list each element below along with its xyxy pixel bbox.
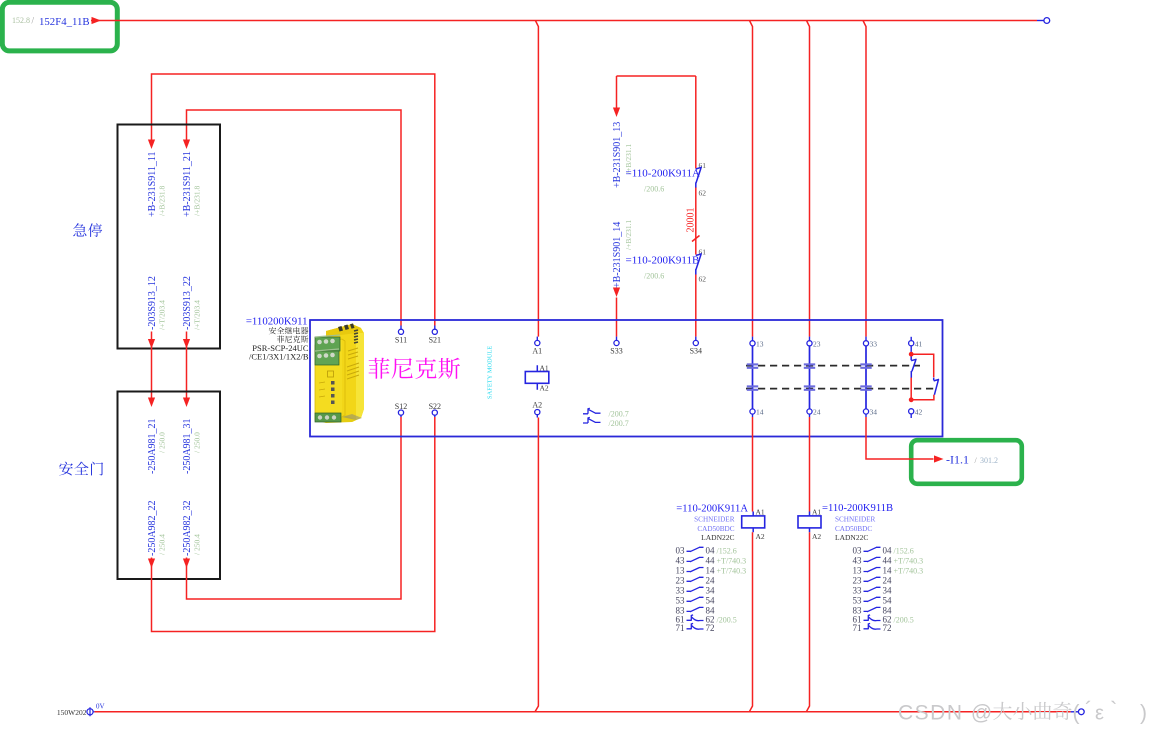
svg-text:A2: A2 <box>532 401 542 410</box>
svg-text:14: 14 <box>883 566 893 576</box>
svg-text:/200.6: /200.6 <box>644 185 664 194</box>
terminal S21 <box>434 326 436 330</box>
svg-text:62: 62 <box>699 189 707 198</box>
wire +B-231S901_13 entry <box>617 76 696 108</box>
svg-text:152.8: 152.8 <box>12 16 30 25</box>
wire -250A982_22 to S22 <box>152 417 435 632</box>
wire coil A to 0V <box>749 532 752 712</box>
svg-text:S21: S21 <box>429 336 441 345</box>
svg-text:23: 23 <box>853 575 863 585</box>
aux contact ref /200.7 a <box>583 408 601 414</box>
svg-text:=110-200K911A: =110-200K911A <box>626 168 700 180</box>
svg-text:): ) <box>1140 702 1147 725</box>
svg-text:13: 13 <box>676 566 686 576</box>
svg-text:=110-200K911B: =110-200K911B <box>626 255 700 267</box>
svg-text:54: 54 <box>883 595 893 605</box>
svg-text:+T/740.3: +T/740.3 <box>894 556 924 565</box>
mechanical linkage dashes lower <box>746 388 934 390</box>
svg-text:33: 33 <box>853 585 863 595</box>
svg-text:34: 34 <box>706 585 716 595</box>
svg-text:04: 04 <box>706 545 716 555</box>
svg-text:71: 71 <box>676 623 685 633</box>
wire 24 to coil B <box>809 417 811 512</box>
svg-text:LADN22C: LADN22C <box>835 533 868 542</box>
svg-text:S33: S33 <box>610 347 622 356</box>
svg-text:S11: S11 <box>395 336 407 345</box>
highlight box -I1.1 <box>911 440 1022 484</box>
svg-text:72: 72 <box>883 623 892 633</box>
svg-text:/+B/231.1: /+B/231.1 <box>624 219 633 250</box>
svg-text:-203S913_12: -203S913_12 <box>147 276 158 330</box>
svg-text:+B-231S911_21: +B-231S911_21 <box>182 151 193 217</box>
svg-text:/152.6: /152.6 <box>894 546 914 555</box>
svg-text:71: 71 <box>853 623 862 633</box>
wire drop to A1 <box>535 21 538 337</box>
svg-text:61: 61 <box>699 161 707 170</box>
wire loop S21 to +B-231S911_11 <box>152 74 435 326</box>
svg-text:34: 34 <box>883 585 893 595</box>
svg-text:24: 24 <box>706 575 716 585</box>
arrow into net 152F4_11B <box>92 17 102 24</box>
contact NC mirror 41-42 <box>910 337 912 341</box>
safety relay box =110200K911 <box>310 320 943 437</box>
svg-text:/200.6: /200.6 <box>644 272 664 281</box>
label feinikesi magenta <box>369 358 390 379</box>
svg-text:CAD50BDC: CAD50BDC <box>697 525 734 533</box>
svg-text:/+T/203.4: /+T/203.4 <box>193 300 202 330</box>
svg-text:-250A981_31: -250A981_31 <box>182 418 193 474</box>
mechanical linkage dashes upper <box>746 365 920 367</box>
svg-text:/+B/231.8: /+B/231.8 <box>193 185 202 216</box>
svg-text:-250A982_32: -250A982_32 <box>182 500 193 556</box>
svg-text:+T/740.3: +T/740.3 <box>717 567 747 576</box>
label an quan men <box>59 462 73 476</box>
svg-text:-250A981_21: -250A981_21 <box>147 418 158 474</box>
svg-text:13: 13 <box>756 340 764 349</box>
svg-text:SCHNEIDER: SCHNEIDER <box>694 515 735 523</box>
svg-text:13: 13 <box>853 566 863 576</box>
wire to S33 <box>613 288 620 298</box>
svg-text:/152.6: /152.6 <box>717 546 737 555</box>
svg-text:/ 250.0: / 250.0 <box>193 432 202 453</box>
wire drop to contact 33 <box>863 21 866 337</box>
wire S34 chain mid <box>695 188 697 255</box>
svg-text:14: 14 <box>756 408 764 417</box>
svg-text:-I1.1: -I1.1 <box>946 453 969 467</box>
svg-text:/+B/231.8: /+B/231.8 <box>158 185 167 216</box>
svg-text:-250A982_22: -250A982_22 <box>147 500 158 556</box>
box safety door group <box>118 392 221 580</box>
svg-text:/200.5: /200.5 <box>894 615 914 624</box>
svg-text:43: 43 <box>676 555 686 565</box>
svg-text:/CE1/3X1/1X2/B: /CE1/3X1/1X2/B <box>249 352 309 362</box>
svg-text:53: 53 <box>853 595 863 605</box>
wire A2 to 0V <box>535 418 538 712</box>
relay coil K911 <box>536 365 538 389</box>
terminal 0V <box>87 709 93 715</box>
svg-text:54: 54 <box>706 595 716 605</box>
svg-text:SAFETY MODULE: SAFETY MODULE <box>487 346 494 399</box>
node 0V rail right connector <box>1071 711 1079 713</box>
aux contact ref /200.7 b <box>583 417 601 423</box>
label feinikesi small <box>277 336 284 343</box>
svg-text:LADN22C: LADN22C <box>701 533 734 542</box>
svg-text:S22: S22 <box>429 402 441 411</box>
terminal S11 <box>400 326 402 330</box>
wire 34 to -I1.1 <box>866 417 934 459</box>
wire top supply rail <box>91 20 1037 22</box>
svg-text:ε: ε <box>1095 703 1104 725</box>
svg-text:+B-231S911_11: +B-231S911_11 <box>147 152 158 217</box>
svg-text:A1: A1 <box>812 508 821 517</box>
svg-text:=110-200K911B: =110-200K911B <box>822 503 893 514</box>
svg-text:150W202: 150W202 <box>57 708 87 717</box>
svg-text:+B-231S901_14: +B-231S901_14 <box>612 222 623 288</box>
coil K911A <box>752 512 754 533</box>
svg-text:/200.7: /200.7 <box>609 419 629 428</box>
wire S34 chain upper <box>695 76 697 169</box>
svg-text:A1: A1 <box>532 347 542 356</box>
svg-text:152F4_11B: 152F4_11B <box>39 16 90 28</box>
svg-text:0V: 0V <box>96 703 105 711</box>
svg-text:301.2: 301.2 <box>980 456 998 465</box>
terminal S34 <box>695 337 697 341</box>
svg-text:´: ´ <box>1085 697 1092 722</box>
box emergency stop group <box>118 125 221 349</box>
svg-text:23: 23 <box>813 340 821 349</box>
svg-text:04: 04 <box>883 545 893 555</box>
wire S34 chain lower <box>695 275 697 337</box>
svg-text:A2: A2 <box>756 532 765 541</box>
svg-text:/+T/203.4: /+T/203.4 <box>158 300 167 330</box>
highlight box 152F4_11B <box>2 2 117 51</box>
wire 0V rail <box>95 711 1071 713</box>
terminal S22 <box>432 410 437 415</box>
svg-text:44: 44 <box>706 555 716 565</box>
wire -250A982_32 to S12 <box>187 417 402 599</box>
svg-text:A1: A1 <box>540 364 549 373</box>
svg-text:33: 33 <box>870 340 878 349</box>
wire 14 to coil A <box>752 417 754 512</box>
svg-text:A2: A2 <box>540 384 549 393</box>
wire loop S11 to +B-231S911_21 <box>187 110 402 326</box>
svg-text:24: 24 <box>813 408 821 417</box>
svg-text:/200.7: /200.7 <box>609 410 629 419</box>
svg-text:+T/740.3: +T/740.3 <box>717 556 747 565</box>
svg-text:33: 33 <box>676 585 686 595</box>
svg-text:03: 03 <box>676 545 686 555</box>
svg-text:/ 250.0: / 250.0 <box>158 432 167 453</box>
svg-text:43: 43 <box>853 555 863 565</box>
svg-text:/200.5: /200.5 <box>717 615 737 624</box>
svg-text:34: 34 <box>870 408 878 417</box>
svg-text:SCHNEIDER: SCHNEIDER <box>835 515 876 523</box>
wire drop to contact 23 <box>807 21 810 337</box>
wire drop to contact 13 <box>750 21 753 337</box>
svg-text:S34: S34 <box>690 347 702 356</box>
svg-text:24: 24 <box>883 575 893 585</box>
svg-text:61: 61 <box>699 248 707 257</box>
wire coil B to 0V <box>806 532 809 712</box>
svg-text:(: ( <box>1073 702 1080 725</box>
svg-text:CAD50BDC: CAD50BDC <box>835 525 872 533</box>
svg-text:41: 41 <box>915 340 923 349</box>
svg-text:72: 72 <box>706 623 715 633</box>
svg-text:S12: S12 <box>395 402 407 411</box>
svg-text:03: 03 <box>853 545 863 555</box>
label ji ting <box>73 223 86 236</box>
svg-text:+T/740.3: +T/740.3 <box>894 567 924 576</box>
svg-text:44: 44 <box>883 555 893 565</box>
wire -203S913_22 down <box>186 332 188 399</box>
svg-text:42: 42 <box>915 408 923 417</box>
svg-text:A1: A1 <box>756 508 765 517</box>
terminal A1 <box>536 337 538 341</box>
svg-text:53: 53 <box>676 595 686 605</box>
svg-text:20001: 20001 <box>686 208 697 233</box>
contact 23-24 <box>809 337 811 341</box>
svg-text:`: ` <box>1110 697 1117 722</box>
wire -203S913_12 down <box>151 332 153 399</box>
contact 33-34 <box>865 337 867 341</box>
svg-text:A2: A2 <box>812 532 821 541</box>
svg-text:14: 14 <box>706 566 716 576</box>
safety relay device photo <box>315 323 364 423</box>
svg-text:62: 62 <box>699 275 707 284</box>
node top rail right connector <box>1037 20 1044 22</box>
label an quan relay <box>269 327 276 334</box>
svg-text:+B-231S901_13: +B-231S901_13 <box>612 122 623 188</box>
svg-text:=110200K911: =110200K911 <box>246 316 308 328</box>
svg-text:/ 250.4: / 250.4 <box>193 534 202 555</box>
svg-text:CSDN @: CSDN @ <box>898 702 994 725</box>
dest arrow -I1.1 <box>934 455 944 462</box>
terminal S12 <box>398 410 403 415</box>
svg-text:23: 23 <box>676 575 686 585</box>
svg-text:/ 250.4: / 250.4 <box>158 534 167 555</box>
svg-text:=110-200K911A: =110-200K911A <box>676 504 748 515</box>
svg-text:-203S913_22: -203S913_22 <box>182 276 193 330</box>
terminal S33 <box>616 337 618 341</box>
contact 13-14 <box>752 337 754 341</box>
coil K911B <box>809 512 811 533</box>
